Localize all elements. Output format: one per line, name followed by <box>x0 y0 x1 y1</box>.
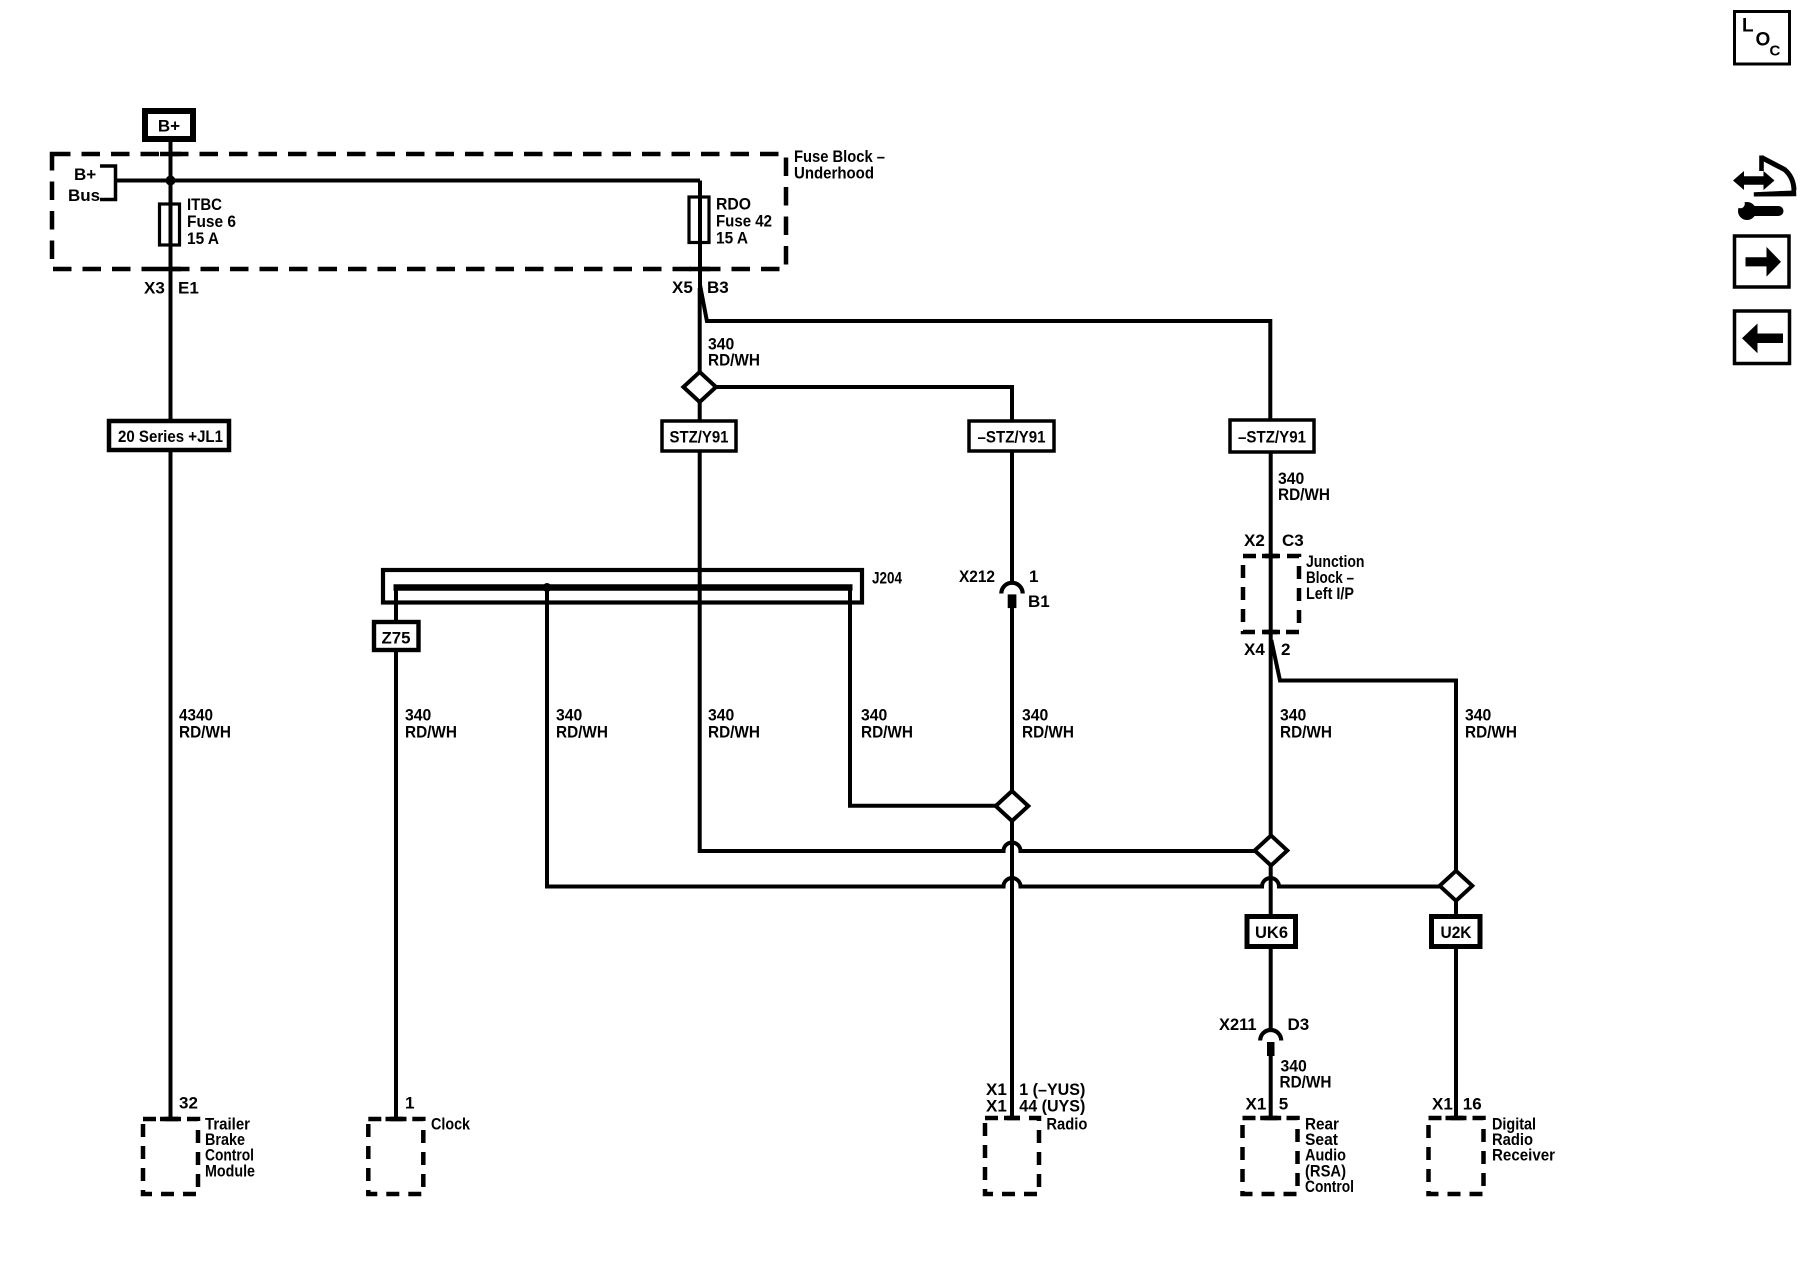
svg-text:RD/WH: RD/WH <box>1465 723 1517 742</box>
svg-text:X3: X3 <box>144 279 165 298</box>
svg-text:STZ/Y91: STZ/Y91 <box>670 428 729 447</box>
svg-text:1: 1 <box>1029 567 1038 586</box>
svg-text:–STZ/Y91: –STZ/Y91 <box>978 428 1046 447</box>
svg-text:RD/WH: RD/WH <box>708 723 760 742</box>
svg-text:Module: Module <box>205 1161 255 1180</box>
svg-text:Receiver: Receiver <box>1492 1146 1555 1165</box>
svg-text:B+: B+ <box>74 165 96 184</box>
svg-text:X4: X4 <box>1244 640 1265 659</box>
svg-text:RD/WH: RD/WH <box>708 351 760 370</box>
svg-text:X212: X212 <box>959 567 995 586</box>
svg-text:L: L <box>1742 16 1754 37</box>
svg-text:C: C <box>1770 43 1781 60</box>
svg-text:Clock: Clock <box>431 1115 470 1134</box>
svg-text:Z75: Z75 <box>382 629 411 648</box>
svg-text:44 (UYS): 44 (UYS) <box>1019 1097 1085 1116</box>
svg-text:O: O <box>1756 30 1771 51</box>
svg-text:RD/WH: RD/WH <box>861 723 913 742</box>
svg-text:X211: X211 <box>1219 1015 1257 1034</box>
svg-text:15 A: 15 A <box>716 229 748 248</box>
svg-text:E1: E1 <box>178 279 199 298</box>
svg-text:16: 16 <box>1463 1095 1482 1114</box>
svg-text:B1: B1 <box>1028 592 1050 611</box>
svg-text:C3: C3 <box>1282 531 1304 550</box>
svg-text:X2: X2 <box>1244 531 1265 550</box>
svg-text:X1: X1 <box>986 1097 1007 1116</box>
svg-text:2: 2 <box>1281 640 1290 659</box>
svg-text:Control: Control <box>1305 1177 1354 1196</box>
svg-text:J204: J204 <box>872 569 902 588</box>
svg-text:Underhood: Underhood <box>794 164 874 183</box>
svg-text:RD/WH: RD/WH <box>1280 723 1332 742</box>
svg-text:RD/WH: RD/WH <box>1280 1073 1332 1092</box>
svg-text:B3: B3 <box>707 278 729 297</box>
svg-text:D3: D3 <box>1288 1015 1310 1034</box>
svg-text:X1: X1 <box>1246 1095 1267 1114</box>
svg-text:X5: X5 <box>672 278 693 297</box>
svg-text:20 Series +JL1: 20 Series +JL1 <box>118 427 223 446</box>
svg-text:B+: B+ <box>158 117 180 136</box>
svg-text:RD/WH: RD/WH <box>1278 485 1330 504</box>
svg-text:5: 5 <box>1279 1095 1288 1114</box>
svg-text:Bus: Bus <box>68 186 100 205</box>
svg-text:Left I/P: Left I/P <box>1306 584 1354 603</box>
svg-text:32: 32 <box>179 1094 198 1113</box>
svg-text:Radio: Radio <box>1046 1115 1087 1134</box>
svg-text:1: 1 <box>405 1094 414 1113</box>
svg-text:UK6: UK6 <box>1255 923 1288 942</box>
svg-text:RD/WH: RD/WH <box>556 723 608 742</box>
svg-text:X1: X1 <box>1432 1095 1453 1114</box>
svg-text:RD/WH: RD/WH <box>179 723 231 742</box>
svg-text:RD/WH: RD/WH <box>1022 723 1074 742</box>
svg-text:15 A: 15 A <box>187 229 219 248</box>
svg-text:U2K: U2K <box>1441 923 1473 942</box>
svg-text:RD/WH: RD/WH <box>405 723 457 742</box>
svg-text:–STZ/Y91: –STZ/Y91 <box>1238 428 1306 447</box>
